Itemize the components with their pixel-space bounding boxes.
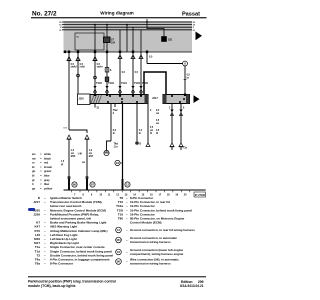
- svg-text:151: 151: [116, 238, 121, 242]
- svg-text:T80: T80: [118, 217, 124, 221]
- svg-text:299: 299: [198, 280, 204, 284]
- wire from bar2 x172 down: [169, 104, 174, 151]
- svg-text:transmission wiring harness: transmission wiring harness: [130, 262, 171, 266]
- ground connection circle 151: [104, 150, 109, 155]
- relay panel bottom edge: [64, 51, 193, 53]
- svg-text:97-27186: 97-27186: [195, 194, 206, 197]
- heavy ground strap bridge: [144, 72, 166, 95]
- svg-text:grey: grey: [44, 178, 50, 182]
- connector T symbol on wire x78: [76, 57, 86, 69]
- bar 2 right dark cap: [186, 95, 190, 104]
- svg-text:USA.5413.04.21: USA.5413.04.21: [180, 284, 204, 288]
- wire drop x78 from band: [77, 52, 79, 95]
- wire from bar1 x137 down to connector: [136, 104, 138, 142]
- svg-text:bl: bl: [32, 174, 35, 178]
- bar 2 terminal dot: [183, 98, 185, 100]
- svg-text:J226: J226: [33, 212, 40, 216]
- bus bar 31: [62, 29, 192, 31]
- wire drop x95 inside band: [94, 25, 96, 52]
- connector on wire x141: [139, 55, 143, 59]
- bar 2 left dark cap: [163, 95, 167, 104]
- svg-text:sw: sw: [89, 153, 92, 155]
- svg-text:br: br: [187, 78, 189, 80]
- svg-text:li: li: [32, 182, 34, 186]
- svg-text:br: br: [113, 133, 115, 135]
- bus bar end labels right: [193, 22, 196, 32]
- ground circle 86: [72, 182, 77, 187]
- wire x107 down to relay J226: [106, 52, 108, 95]
- svg-text:transmission wiring harness: transmission wiring harness: [130, 240, 171, 244]
- connector on wire x120: [118, 55, 122, 59]
- terminal stub below relay J226 at x115: [114, 104, 116, 108]
- inline connector circle on wire x95: [94, 76, 97, 79]
- bus bar X: [62, 26, 192, 28]
- svg-text:yellow: yellow: [44, 186, 53, 190]
- wire drop x133 inside band: [132, 27, 134, 52]
- svg-text:L46: L46: [78, 153, 83, 156]
- node A connection circle: [183, 61, 188, 66]
- ground circle on x122: [125, 182, 130, 187]
- fuse S21: [146, 21, 173, 41]
- wire drop x120 inside band: [119, 30, 121, 52]
- svg-text:M17: M17: [89, 156, 94, 158]
- tiny labels above connector pairs: [96, 83, 149, 85]
- svg-text:ro: ro: [32, 161, 35, 165]
- svg-text:T8a: T8a: [35, 262, 41, 266]
- legend right column: [116, 196, 192, 225]
- track tick marks and numbers: [72, 190, 190, 192]
- wire x133 down to relay J226: [132, 52, 134, 95]
- arrow to next track (bar 2 level): [194, 95, 200, 103]
- relay panel grey band: [64, 21, 193, 52]
- connector triangle on wire x87: [85, 135, 90, 139]
- legend left column: [33, 196, 113, 266]
- svg-text:Park/neutral position (PNP) re: Park/neutral position (PNP) relay, trans…: [28, 279, 116, 283]
- svg-text:bl: bl: [156, 133, 158, 135]
- wire from node A down to TCM connector: [184, 66, 186, 95]
- connector triangle on wire x69: [67, 135, 72, 139]
- svg-text:compartment), wiring harness e: compartment), wiring harness engine: [130, 252, 184, 256]
- svg-text:white: white: [43, 152, 51, 156]
- wire connection circle 94: [115, 160, 120, 165]
- svg-text:8-Pin Connector: 8-Pin Connector: [50, 262, 74, 266]
- wire drop x69 from band: [68, 52, 70, 130]
- wire x141 down to relay J226: [140, 52, 142, 95]
- wire x87 lower run: [86, 140, 88, 181]
- svg-text:J.br: J.br: [114, 147, 118, 149]
- bus bar 15: [62, 24, 192, 26]
- svg-text:sw: sw: [71, 153, 74, 155]
- wire x69 lower run: [68, 140, 70, 181]
- svg-text:sw: sw: [82, 162, 85, 164]
- svg-text:Ground connection, in rear lid: Ground connection, in rear lid wiring ha…: [130, 228, 195, 232]
- wire from bar1 x108 down: [110, 104, 112, 142]
- svg-text:ro/bl: ro/bl: [80, 66, 86, 69]
- svg-text:T10/2: T10/2: [108, 83, 115, 85]
- svg-text:T6a/: T6a/: [113, 110, 118, 112]
- wire connection note 86: [116, 258, 179, 266]
- relay J226 connector strip (bar 1): [90, 95, 148, 104]
- inline connector circle on wire x78: [77, 74, 80, 77]
- svg-text:red: red: [44, 161, 49, 165]
- svg-text:sw: sw: [150, 130, 153, 132]
- wire color legend block: [31, 152, 53, 190]
- svg-text:br: br: [139, 133, 141, 135]
- wire from bar1 x148 down: [147, 104, 149, 144]
- svg-text:10A: 10A: [111, 42, 116, 45]
- diagram id label: [194, 192, 206, 197]
- svg-text:blue: blue: [44, 174, 50, 178]
- fuse S7: [104, 24, 116, 45]
- footer rule: [28, 276, 206, 277]
- wire x120 down to relay J226: [119, 52, 121, 95]
- header rule: [31, 17, 207, 18]
- wire color labels left pair: [71, 150, 94, 158]
- ground symbol note 12: [116, 227, 195, 233]
- wire x95 down to relay J226: [94, 52, 96, 95]
- svg-text:ge: ge: [32, 187, 36, 190]
- wire x147 below band to node A: [146, 52, 148, 64]
- relay J226 label box: [78, 94, 91, 105]
- wire color labels for bar2 wires: [156, 110, 160, 135]
- node A horizontal wire: [147, 63, 183, 65]
- bar 2 top entry nub: [184, 94, 186, 97]
- long wire from bar1 x122 to bottom: [122, 104, 124, 190]
- svg-text:bl: bl: [150, 133, 152, 135]
- svg-text:A: A: [184, 62, 186, 66]
- svg-text:black: black: [44, 156, 51, 160]
- svg-text:Wiring diagram: Wiring diagram: [100, 11, 133, 16]
- arrow to next track (band level): [196, 32, 203, 41]
- ground symbol note 94: [116, 248, 184, 256]
- elbow to ground symbol: [107, 141, 112, 150]
- svg-text:gr: gr: [32, 178, 35, 182]
- svg-text:T10/5: T10/5: [96, 83, 103, 85]
- svg-text:T10/1: T10/1: [121, 83, 128, 85]
- fuse holder symbols on wire x107: [105, 68, 109, 73]
- track number labels above bottom rule: [61, 161, 85, 166]
- bottom rule: [64, 189, 206, 191]
- hatched section of bar 1: [91, 95, 102, 103]
- bar 1 top entry nubs: [94, 94, 142, 97]
- wire x69 elbow to second ground leg: [69, 130, 87, 133]
- connector T symbol on wire x69: [67, 57, 77, 69]
- svg-text:green: green: [44, 169, 52, 173]
- ground stub wire x87: [86, 179, 88, 190]
- svg-text:sw/bl: sw/bl: [71, 66, 77, 69]
- bus bar end labels left: [59, 22, 62, 32]
- connector T symbol on wire x95: [93, 57, 104, 69]
- connector pair symbols above relay J226: [93, 86, 142, 92]
- svg-text:br: br: [32, 165, 35, 169]
- svg-text:J217: J217: [152, 96, 158, 100]
- ground circle 87: [90, 182, 95, 187]
- svg-text:T10/9: T10/9: [142, 83, 149, 85]
- svg-text:J217: J217: [33, 200, 40, 204]
- relay J226 inner outline box: [75, 33, 104, 50]
- svg-text:S21: S21: [168, 39, 173, 42]
- svg-text:sw: sw: [156, 123, 159, 125]
- end connector marks on ground wires: [68, 177, 70, 179]
- svg-text:J226: J226: [79, 99, 85, 101]
- bus bar 30: [62, 21, 192, 23]
- svg-text:Edition: Edition: [181, 280, 193, 284]
- svg-text:No. 27/2: No. 27/2: [32, 11, 57, 18]
- svg-text:M16: M16: [71, 156, 76, 158]
- svg-text:gr: gr: [61, 164, 63, 166]
- bar 1 internal terminal marks: [107, 95, 142, 103]
- svg-text:sw/ro: sw/ro: [97, 66, 104, 69]
- wire drop x127 inside band: [126, 25, 128, 52]
- svg-text:gn: gn: [32, 170, 36, 173]
- ground symbol note 151: [116, 236, 178, 244]
- svg-text:module (TCM), back-up lights: module (TCM), back-up lights: [28, 284, 76, 288]
- wire from bar2 x181 down: [179, 104, 188, 151]
- fuse S7 outlet wire: [106, 43, 108, 53]
- svg-text:lilac: lilac: [44, 182, 50, 186]
- svg-text:brown: brown: [44, 165, 52, 169]
- terminal nubs on band bottom: [64, 51, 148, 54]
- svg-text:ws: ws: [31, 153, 36, 156]
- TCM J217 connector (bar 2): [163, 95, 190, 104]
- svg-text:T6a/: T6a/: [114, 144, 119, 146]
- svg-text:Passat: Passat: [182, 11, 200, 17]
- svg-text:Control Module (ECM): Control Module (ECM): [130, 221, 162, 225]
- ground stub wire x69: [68, 179, 70, 190]
- feed stub above bus bar 30: [146, 19, 148, 22]
- svg-text:sw: sw: [156, 113, 159, 115]
- connector on wire x133: [131, 55, 135, 59]
- svg-text:T10/6: T10/6: [134, 83, 141, 85]
- bar 1 right dark cap: [145, 95, 149, 104]
- terminal stub below relay J226 at x95: [94, 104, 96, 108]
- wire drop x141 inside band: [140, 30, 142, 52]
